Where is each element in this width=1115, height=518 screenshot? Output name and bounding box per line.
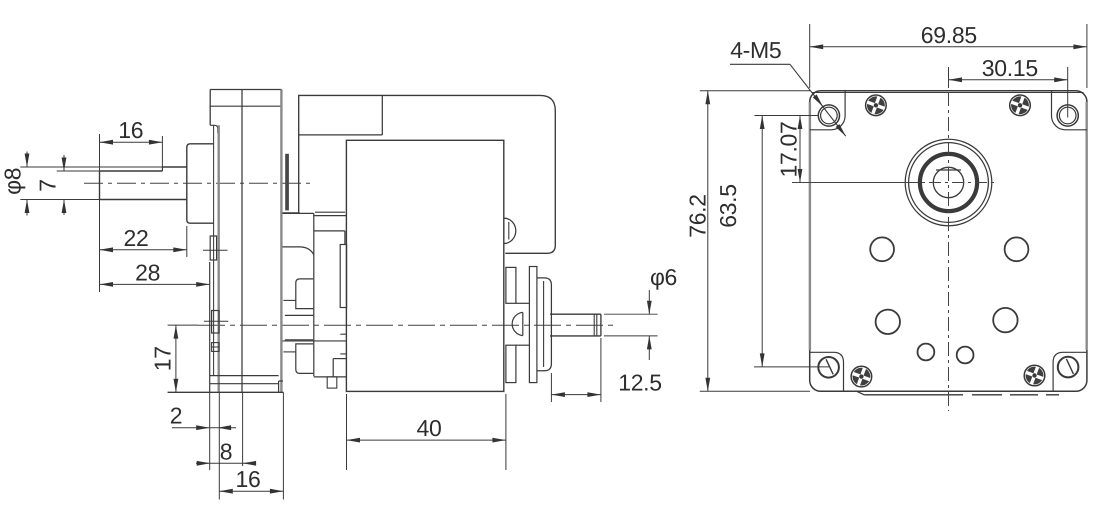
mounting hole top-right (M5) (1057, 105, 1078, 126)
corner ear bottom-right (1053, 352, 1087, 391)
gearbox plate outline (210, 90, 282, 393)
gear shelf curve (283, 247, 314, 255)
svg-text:2: 2 (170, 403, 183, 429)
motor bracket (299, 95, 556, 253)
svg-text:φ6: φ6 (650, 264, 677, 290)
gear block g2 (314, 359, 347, 389)
dimension phi8 (0, 152, 162, 216)
output boss (187, 144, 214, 223)
cover screw top-left (866, 95, 887, 116)
dimension 40 (347, 394, 506, 470)
rear end cap (537, 278, 552, 371)
front view horizontal centerline (792, 182, 994, 184)
gear hole A (870, 237, 894, 261)
motor screw bump (504, 218, 516, 243)
rear strip s2 (529, 267, 537, 383)
svg-text:63.5: 63.5 (715, 184, 741, 228)
gear hole E small (918, 344, 935, 361)
gear hole B (1005, 237, 1029, 261)
plate foot (168, 262, 284, 392)
rear strip s1 lower (506, 345, 516, 382)
gear hole F small (957, 347, 974, 364)
front plate outline (810, 91, 1087, 392)
svg-text:17: 17 (150, 346, 176, 371)
svg-text:76.2: 76.2 (685, 194, 711, 238)
corner ear top-left (810, 91, 845, 130)
output shaft (100, 167, 187, 200)
output boss circles (905, 139, 992, 226)
svg-text:4-M5: 4-M5 (730, 37, 781, 63)
svg-text:16: 16 (236, 466, 261, 492)
lower gear (283, 344, 313, 374)
gear hole D (993, 308, 1017, 332)
mounting screw bottom-right (1058, 357, 1079, 378)
gear hub lines (283, 315, 347, 354)
dimension 76.2 (685, 91, 811, 392)
centerline output axis (84, 182, 312, 184)
dimension 12.5 (551, 338, 661, 402)
cover screw bottom-left (851, 366, 872, 387)
svg-text:12.5: 12.5 (618, 370, 662, 396)
corner ear bottom-left (810, 352, 844, 391)
cover screw top-right (1010, 95, 1031, 116)
svg-text:16: 16 (118, 117, 143, 143)
label 4-M5 with leader (730, 37, 846, 136)
plate clip (212, 343, 219, 352)
rear bearing lines (512, 303, 529, 345)
dimension 16 (flat length) (100, 117, 163, 292)
dimension 2 (170, 392, 236, 499)
bracket lamination (299, 95, 383, 134)
dimension 7 (flat) (35, 155, 100, 215)
svg-text:7: 7 (35, 179, 61, 192)
svg-text:28: 28 (135, 259, 160, 285)
dimension 16 bottom (plate thickness) (219, 392, 283, 499)
gear housing lines (283, 212, 347, 376)
plate tab upper (203, 125, 228, 375)
dimension 69.85 (810, 22, 1087, 88)
centerline motor axis (198, 324, 614, 326)
corner ear top-right (1052, 91, 1087, 130)
gear pinion g1 (340, 245, 346, 308)
cover screw bottom-right (1024, 365, 1045, 386)
gear hole C (876, 310, 900, 334)
bearing bracket bar (283, 154, 300, 213)
svg-text:40: 40 (417, 415, 442, 441)
svg-text:69.85: 69.85 (921, 22, 977, 48)
dimension 28 (100, 259, 210, 286)
mounting hole top-left (M5) (818, 105, 839, 126)
dimension 63.5 (715, 116, 765, 367)
mounting screw bottom-left (818, 357, 839, 378)
dimension 30.15 (949, 55, 1068, 118)
dimension phi6 (604, 264, 677, 360)
dimension 17 (150, 325, 199, 392)
plate tab lower (204, 311, 228, 334)
rear shaft (550, 314, 601, 336)
front view vertical centerline (948, 67, 950, 411)
svg-text:17.07: 17.07 (776, 121, 802, 177)
svg-text:8: 8 (220, 438, 233, 464)
hole center extension bottom (754, 366, 829, 368)
svg-text:22: 22 (124, 225, 149, 251)
svg-text:φ8: φ8 (0, 168, 25, 195)
svg-text:30.15: 30.15 (982, 55, 1038, 81)
hole center extension top (754, 115, 817, 117)
dimension 17.07 (776, 116, 803, 183)
bottom silhouette tabs (857, 391, 1059, 394)
rear strip s1 upper (506, 267, 516, 303)
motor body (346, 140, 503, 391)
dimension 8 (196, 392, 256, 466)
dimension 22 (100, 225, 187, 257)
upper gear (283, 279, 313, 309)
